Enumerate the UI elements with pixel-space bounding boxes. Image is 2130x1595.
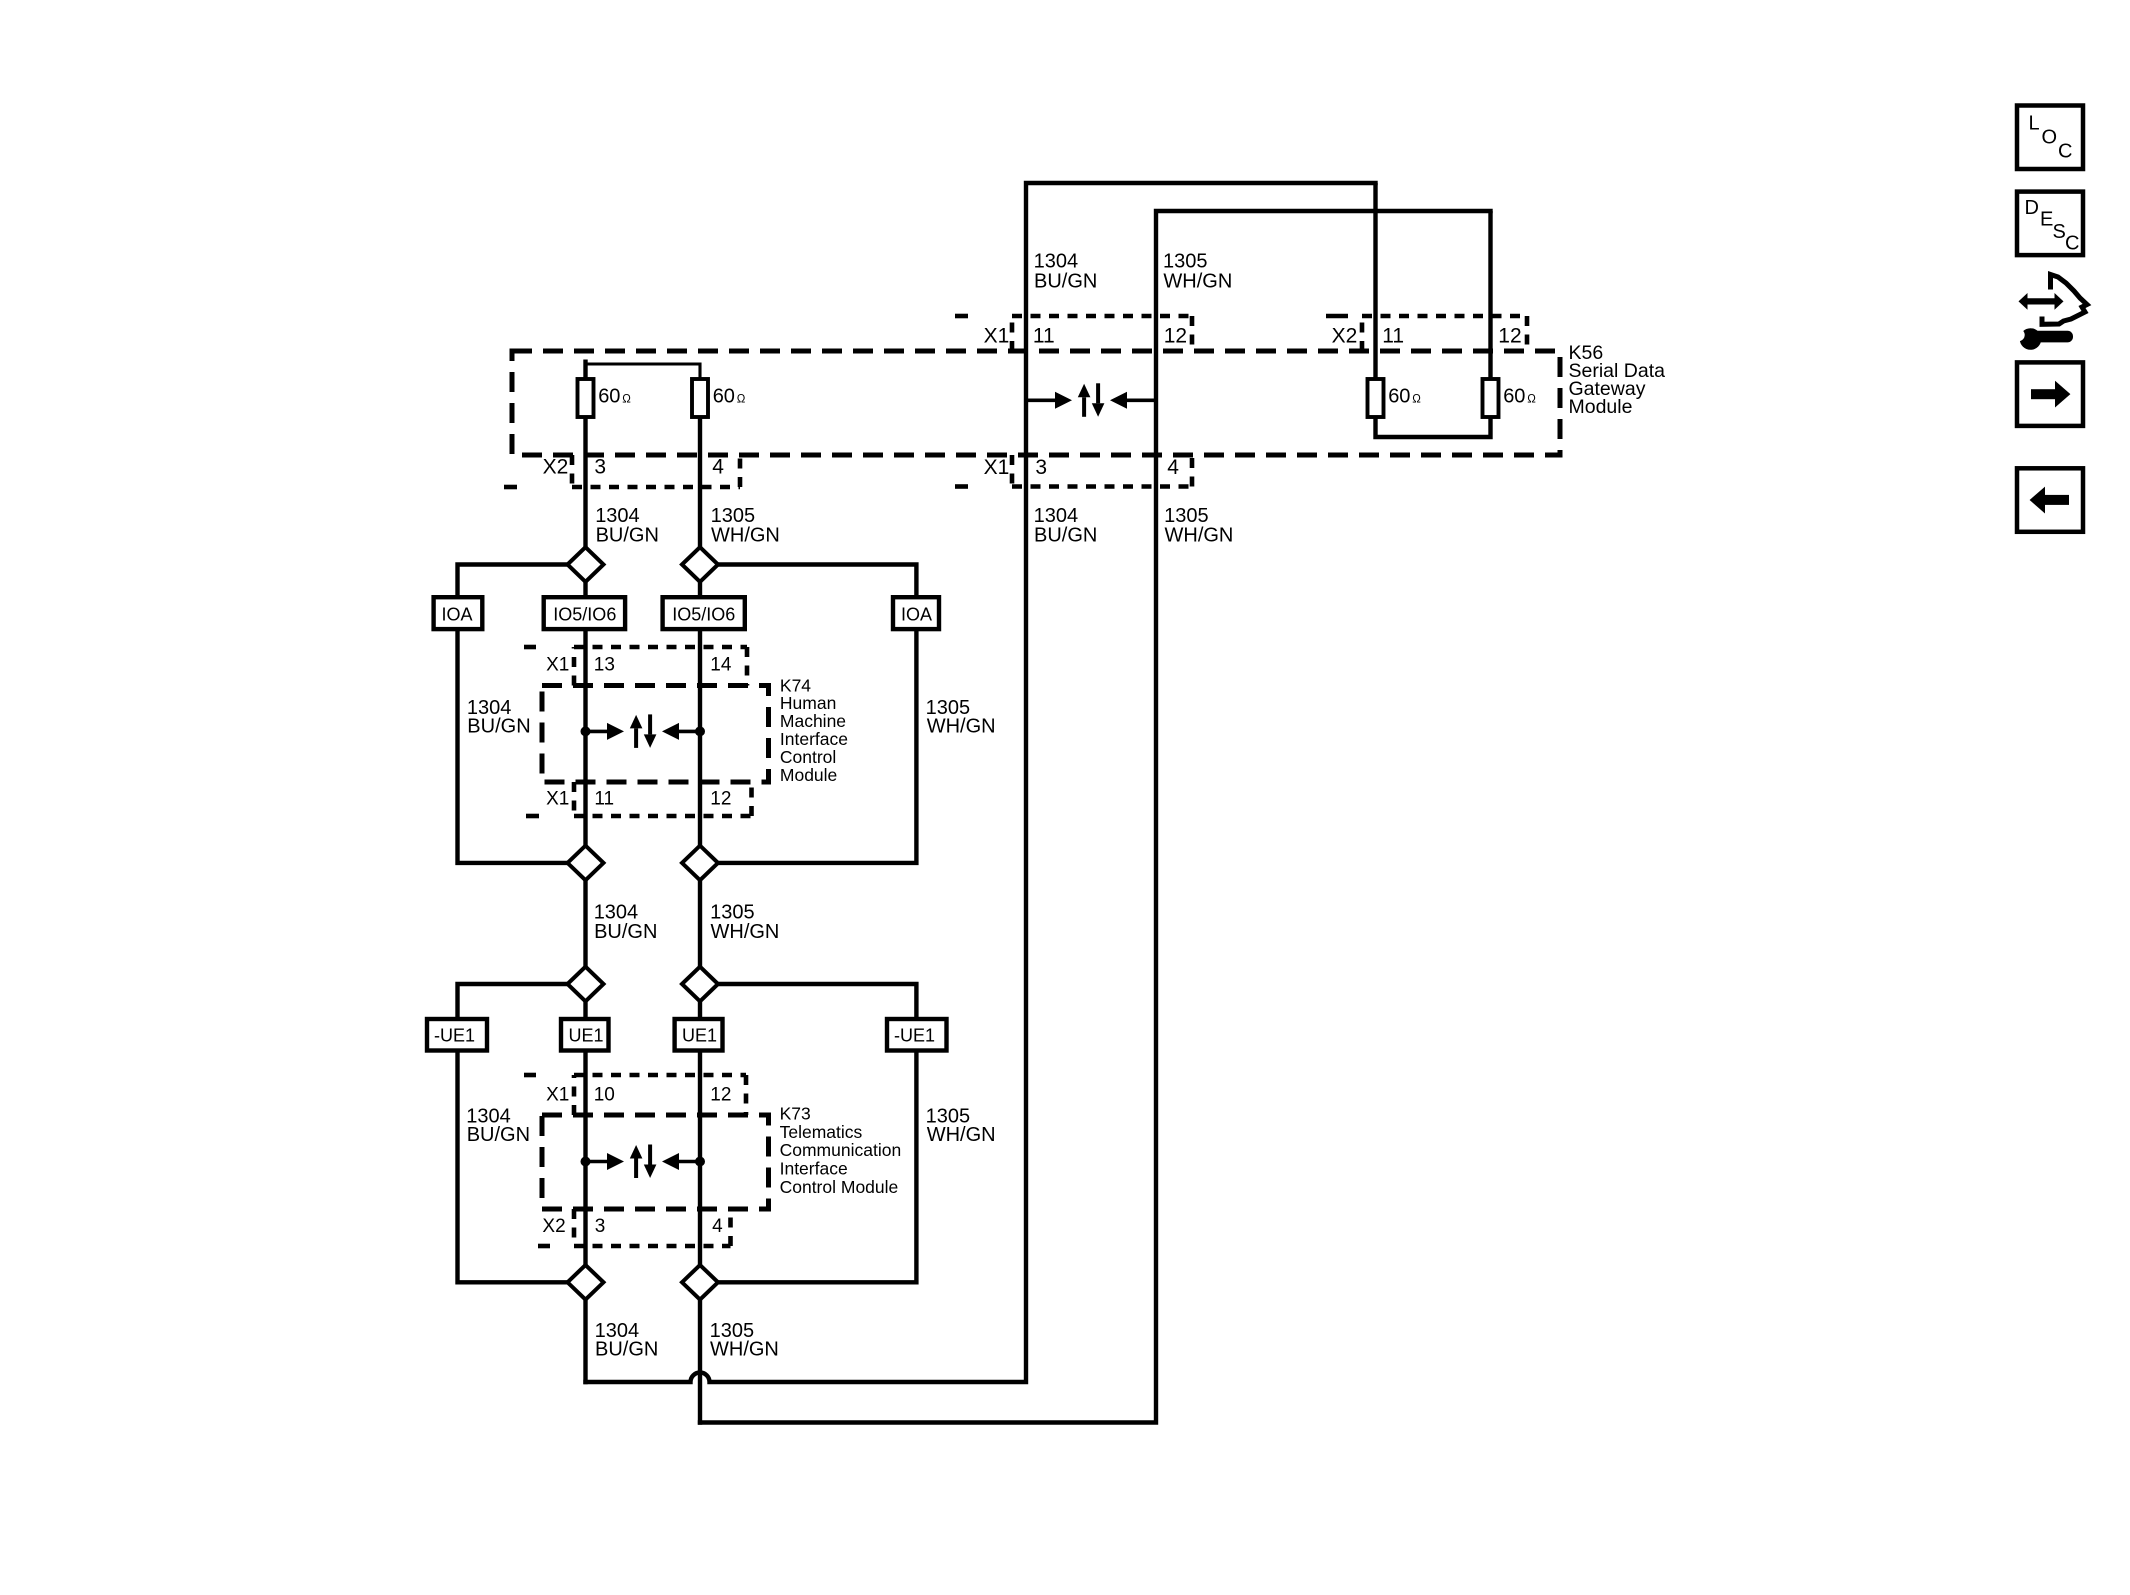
svg-text:X1: X1 bbox=[984, 325, 1010, 348]
svg-text:12: 12 bbox=[710, 788, 731, 809]
svg-text:IOA: IOA bbox=[442, 604, 473, 624]
svg-text:X2: X2 bbox=[542, 1216, 565, 1237]
svg-text:11: 11 bbox=[594, 788, 614, 809]
svg-text:WH/GN: WH/GN bbox=[1163, 270, 1232, 292]
svg-text:D: D bbox=[2025, 197, 2039, 219]
svg-text:60: 60 bbox=[1503, 386, 1525, 408]
svg-text:Interface: Interface bbox=[780, 1159, 848, 1179]
svg-text:14: 14 bbox=[710, 654, 732, 675]
svg-text:3: 3 bbox=[1035, 456, 1047, 479]
svg-text:4: 4 bbox=[712, 456, 724, 479]
svg-text:UE1: UE1 bbox=[682, 1026, 717, 1046]
svg-text:IO5/IO6: IO5/IO6 bbox=[672, 604, 735, 624]
svg-text:WH/GN: WH/GN bbox=[927, 1124, 996, 1146]
svg-text:BU/GN: BU/GN bbox=[595, 1338, 658, 1360]
svg-text:Control Module: Control Module bbox=[780, 1177, 899, 1197]
svg-text:60: 60 bbox=[1388, 386, 1410, 408]
svg-text:IOA: IOA bbox=[901, 604, 932, 624]
svg-text:WH/GN: WH/GN bbox=[710, 1338, 779, 1360]
svg-text:12: 12 bbox=[1498, 325, 1521, 348]
svg-text:WH/GN: WH/GN bbox=[711, 921, 780, 943]
svg-text:-UE1: -UE1 bbox=[894, 1026, 935, 1046]
svg-text:WH/GN: WH/GN bbox=[927, 716, 996, 738]
svg-text:Telematics: Telematics bbox=[780, 1122, 863, 1142]
svg-text:Ω: Ω bbox=[622, 394, 631, 406]
svg-text:12: 12 bbox=[710, 1084, 731, 1105]
svg-text:WH/GN: WH/GN bbox=[711, 525, 780, 547]
svg-text:BU/GN: BU/GN bbox=[467, 1124, 530, 1146]
svg-text:11: 11 bbox=[1033, 325, 1055, 348]
svg-text:4: 4 bbox=[712, 1216, 723, 1237]
svg-text:12: 12 bbox=[1164, 325, 1187, 348]
svg-text:X2: X2 bbox=[543, 456, 569, 479]
svg-text:60: 60 bbox=[598, 386, 620, 408]
svg-text:10: 10 bbox=[594, 1084, 615, 1105]
svg-text:3: 3 bbox=[594, 456, 606, 479]
svg-text:L: L bbox=[2029, 113, 2040, 135]
svg-text:BU/GN: BU/GN bbox=[467, 716, 530, 738]
svg-text:X1: X1 bbox=[984, 456, 1010, 479]
svg-text:Module: Module bbox=[780, 765, 837, 785]
svg-text:Communication: Communication bbox=[780, 1140, 902, 1160]
svg-text:60: 60 bbox=[713, 386, 735, 408]
svg-text:IO5/IO6: IO5/IO6 bbox=[553, 604, 616, 624]
svg-text:3: 3 bbox=[595, 1216, 606, 1237]
svg-text:X1: X1 bbox=[546, 788, 569, 809]
svg-text:BU/GN: BU/GN bbox=[1034, 270, 1097, 292]
svg-text:K73: K73 bbox=[780, 1103, 811, 1123]
svg-text:Ω: Ω bbox=[1412, 394, 1421, 406]
svg-text:13: 13 bbox=[594, 654, 615, 675]
svg-text:X1: X1 bbox=[546, 654, 569, 675]
svg-text:BU/GN: BU/GN bbox=[596, 525, 659, 547]
svg-text:E: E bbox=[2040, 209, 2053, 231]
svg-text:4: 4 bbox=[1167, 456, 1179, 479]
svg-text:X1: X1 bbox=[546, 1084, 569, 1105]
svg-text:Ω: Ω bbox=[737, 394, 746, 406]
svg-text:X2: X2 bbox=[1332, 325, 1358, 348]
svg-text:C: C bbox=[2058, 141, 2072, 163]
svg-text:S: S bbox=[2053, 221, 2066, 243]
svg-text:BU/GN: BU/GN bbox=[594, 921, 657, 943]
svg-text:O: O bbox=[2042, 127, 2058, 149]
svg-text:11: 11 bbox=[1382, 325, 1404, 348]
svg-text:Module: Module bbox=[1569, 396, 1633, 418]
svg-text:-UE1: -UE1 bbox=[434, 1026, 475, 1046]
svg-text:Ω: Ω bbox=[1527, 394, 1536, 406]
svg-text:WH/GN: WH/GN bbox=[1165, 525, 1234, 547]
svg-text:C: C bbox=[2065, 233, 2079, 255]
svg-text:BU/GN: BU/GN bbox=[1034, 525, 1097, 547]
svg-text:UE1: UE1 bbox=[569, 1026, 604, 1046]
